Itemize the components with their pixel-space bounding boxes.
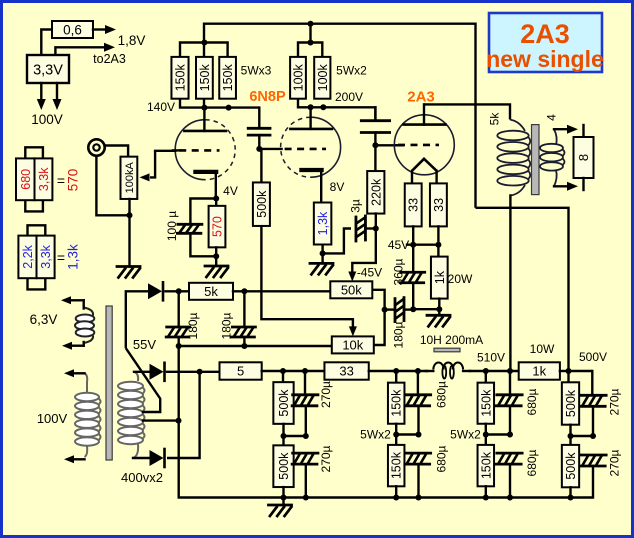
- svg-text:1k: 1k: [433, 270, 447, 284]
- resistor 150k bleeder 2a: [478, 371, 495, 435]
- transformer PT core: [106, 306, 112, 460]
- arrow 6,3V bottom: [62, 342, 84, 350]
- capacitor 270u 3b: [580, 455, 606, 498]
- svg-text:-45V: -45V: [357, 266, 382, 280]
- resistor 1k 20W cathode: [431, 245, 448, 310]
- svg-text:570: 570: [65, 169, 80, 192]
- wire 500V to 270u col: [569, 370, 593, 372]
- wire bias node down to 10k: [374, 310, 385, 345]
- svg-text:1,3k: 1,3k: [65, 244, 80, 270]
- node 500k mid 3: [568, 433, 574, 439]
- svg-text:500k: 500k: [277, 389, 291, 417]
- svg-text:500k: 500k: [564, 389, 578, 417]
- wire volume bottom lead: [128, 199, 130, 215]
- wire to ground stage2: [321, 253, 323, 263]
- node 150k col2 top: [483, 368, 489, 374]
- ground input circuit: [117, 267, 140, 278]
- resistor 5k bias filter: [189, 283, 233, 300]
- svg-text:2,2k: 2,2k: [21, 244, 35, 268]
- node grid 2A3: [372, 142, 378, 148]
- resistor 150k bleeder 2b: [478, 435, 495, 498]
- node cathode stage2 ground junction: [320, 250, 326, 256]
- wire bias ground rail: [179, 345, 332, 347]
- node 680u mid 2: [507, 432, 513, 438]
- capacitor 3u bias feed: [323, 216, 376, 253]
- svg-text:8V: 8V: [330, 180, 345, 194]
- svg-text:100V: 100V: [31, 112, 63, 127]
- wire 55V tap to D1: [126, 348, 160, 412]
- svg-text:4V: 4V: [223, 184, 238, 198]
- node 100k b bottom: [320, 104, 326, 110]
- wire 100k pair top lead: [309, 24, 311, 43]
- svg-text:1k: 1k: [532, 364, 546, 379]
- svg-text:360µ: 360µ: [391, 258, 405, 285]
- node center tap: [176, 418, 182, 424]
- svg-text:150k: 150k: [479, 451, 493, 479]
- node rail 500k 3: [568, 495, 574, 501]
- node 100k pair tie: [308, 40, 314, 46]
- svg-text:6N8P: 6N8P: [249, 89, 286, 105]
- capacitor 180u bias b: [232, 291, 256, 346]
- svg-text:55V: 55V: [133, 337, 156, 352]
- resistor 1,3k cathode stage2: [314, 203, 332, 254]
- diode D3 main rectifier lower: [133, 372, 200, 467]
- node 100k a bottom: [308, 104, 314, 110]
- ground main rail: [269, 505, 292, 516]
- svg-text:680µ: 680µ: [525, 449, 539, 476]
- potentiometer 100kA: [121, 157, 138, 199]
- svg-text:33: 33: [432, 198, 446, 212]
- resistor 150k bleeder 1b: [388, 435, 405, 498]
- svg-text:270µ: 270µ: [607, 388, 621, 415]
- resistor 0,6 (filament dropper): [52, 21, 93, 38]
- node 500V: [566, 368, 572, 374]
- resistor 33 filament b: [430, 183, 447, 244]
- svg-text:180µ: 180µ: [219, 312, 233, 339]
- node 150k c bottom: [226, 105, 232, 111]
- node 150k col top: [393, 368, 399, 374]
- node 5k row right: [241, 288, 247, 294]
- node 360u bottom: [410, 306, 416, 312]
- winding HV secondary 400vx2: [118, 372, 145, 458]
- svg-text:680: 680: [19, 169, 33, 190]
- arrow 100V feed right: [53, 83, 62, 110]
- wire 50k right to 10k right: [372, 290, 384, 310]
- wire row 5 to 33: [262, 370, 325, 372]
- svg-text:50k: 50k: [341, 282, 362, 297]
- svg-text:500V: 500V: [579, 350, 607, 364]
- wire rail ground stub: [282, 498, 284, 506]
- svg-text:=: =: [57, 173, 65, 189]
- wire jack to volume top: [105, 146, 128, 157]
- capacitor 270u upper: [292, 371, 318, 436]
- diode D1 bias rectifier: [126, 282, 189, 348]
- node 680u col top: [415, 368, 421, 374]
- wire 100k pair bottom tie: [298, 99, 375, 121]
- svg-text:270µ: 270µ: [319, 445, 333, 472]
- wire to2A3 arrow: [55, 43, 115, 55]
- node 270u mid 3: [590, 433, 596, 439]
- node bias rail a: [176, 343, 182, 349]
- resistor 100k a: [290, 57, 306, 99]
- svg-text:5k: 5k: [204, 284, 218, 299]
- legend resistors 2,2k parallel 3,3k = 1,3k: [18, 225, 80, 289]
- svg-text:new single: new single: [486, 46, 604, 72]
- svg-text:6,3V: 6,3V: [30, 312, 58, 327]
- svg-text:150k: 150k: [198, 63, 212, 91]
- wire 500k mid tie: [284, 435, 306, 437]
- capacitor coupling C2 stage2-2A3: [361, 107, 389, 145]
- svg-text:200V: 200V: [335, 90, 363, 104]
- resistor 33 filament a: [405, 182, 422, 245]
- resistor 500k bleeder upper: [273, 371, 293, 436]
- capacitor 680u 2b: [496, 453, 522, 497]
- svg-text:180µ: 180µ: [391, 321, 405, 348]
- svg-text:5Wx2: 5Wx2: [360, 428, 391, 442]
- svg-text:33: 33: [407, 198, 421, 212]
- transformer OPT primary 5k: [497, 120, 530, 196]
- wire 5k to 50k: [233, 290, 330, 292]
- arrow 6,3V top: [61, 296, 84, 304]
- node 150k mid 2: [483, 432, 489, 438]
- resistor 500k bleeder lower: [273, 436, 293, 498]
- node 1k bottom: [436, 306, 442, 312]
- winding 6,3V heater: [75, 300, 94, 345]
- node 680u mid 1: [416, 432, 422, 438]
- resistor 150k a: [171, 57, 188, 99]
- svg-text:510V: 510V: [477, 351, 505, 365]
- node 5k row left: [176, 288, 182, 294]
- potentiometer 50k bias adjust: [330, 281, 372, 298]
- wire 220k bottom to -45V: [348, 229, 376, 282]
- wire cathode ground row: [413, 308, 439, 310]
- node rail 680u 1: [416, 495, 422, 501]
- svg-text:100k: 100k: [316, 63, 330, 91]
- node rail 270u: [303, 495, 309, 501]
- resistor 220k grid leak 2A3: [367, 145, 384, 228]
- wire 150k trio bottom tie: [180, 99, 259, 108]
- wire 0,6 box left lead: [41, 30, 52, 56]
- capacitor 680u 2a: [496, 371, 522, 435]
- wire 45V row: [407, 243, 440, 245]
- capacitor 180u bias c (to ground row): [385, 298, 414, 322]
- capacitor 680u 1a: [405, 371, 431, 435]
- svg-text:3µ: 3µ: [348, 199, 362, 213]
- wire HV center tap: [143, 419, 179, 421]
- svg-text:1,8V: 1,8V: [118, 33, 146, 48]
- wire 500k mid tie 3: [571, 435, 594, 437]
- legend resistors 680 parallel 3,3k = 570: [16, 147, 80, 211]
- resistor 33 (filter): [324, 362, 368, 379]
- arrow 100V top: [64, 369, 85, 377]
- svg-text:680µ: 680µ: [525, 388, 539, 415]
- node 220k bottom: [373, 226, 379, 232]
- wire 500k stage2 return to 10k wiper: [261, 226, 357, 336]
- svg-text:5Wx2: 5Wx2: [336, 64, 367, 78]
- svg-text:5: 5: [237, 364, 244, 379]
- node rectifier output: [197, 369, 203, 375]
- wire volume wiper to grid V1: [140, 151, 156, 182]
- transformer 3,3V box: [27, 55, 69, 83]
- svg-text:10H 200mA: 10H 200mA: [420, 333, 483, 347]
- resistor 100k b: [314, 57, 330, 99]
- resistor 500k grid leak stage2: [253, 149, 270, 226]
- svg-text:4: 4: [544, 114, 558, 121]
- resistor 150k c: [219, 57, 236, 99]
- choke 10H 200mA: [426, 348, 470, 378]
- transformer OPT core: [532, 125, 540, 195]
- svg-text:500k: 500k: [564, 452, 578, 480]
- arrow 100V bottom: [64, 455, 85, 463]
- wire grid stage 2: [259, 148, 281, 150]
- node 500k mid: [281, 433, 287, 439]
- capacitor 100u cathode bypass: [177, 199, 216, 257]
- node 270u col top: [302, 368, 308, 374]
- wire grid 2A3: [375, 144, 396, 146]
- wire 150k mid tie 2: [486, 433, 510, 435]
- svg-text:140V: 140V: [147, 100, 175, 114]
- transformer OPT secondary: [540, 129, 565, 186]
- wire 150k mid tie 1: [396, 433, 418, 435]
- svg-text:8: 8: [576, 154, 591, 161]
- potentiometer 10k bias adjust: [332, 336, 374, 353]
- tube V3 2A3: [394, 104, 454, 181]
- svg-text:680µ: 680µ: [434, 381, 448, 408]
- resistor 5 (filter): [220, 362, 262, 379]
- node rail 150k 2: [483, 495, 489, 501]
- node 45V a: [410, 242, 416, 248]
- wire 500V riser to plate rail: [476, 208, 569, 371]
- svg-text:100 µ: 100 µ: [165, 211, 179, 241]
- node bias rail b: [241, 343, 247, 349]
- node 270u mid: [303, 433, 309, 439]
- svg-text:45V: 45V: [388, 238, 409, 252]
- svg-text:to2A3: to2A3: [93, 52, 126, 66]
- svg-text:=: =: [57, 250, 65, 266]
- node grid stage 2: [256, 146, 262, 152]
- svg-text:1,3k: 1,3k: [316, 211, 330, 235]
- wire choke to 1k: [470, 370, 519, 372]
- resistor 570 cathode: [209, 199, 226, 257]
- wire bias return / center tap to ground rail: [179, 346, 593, 498]
- resistor 150k b: [196, 57, 213, 99]
- svg-text:150k: 150k: [174, 63, 188, 91]
- wire B+ top rail: [204, 24, 476, 208]
- capacitor 270u lower: [292, 453, 318, 497]
- svg-text:5k: 5k: [487, 112, 501, 126]
- wire jack ground to volume bottom: [96, 156, 129, 216]
- svg-text:100k: 100k: [292, 63, 306, 91]
- svg-text:3,3k: 3,3k: [39, 244, 53, 268]
- arrow 100V feed left: [37, 83, 46, 110]
- svg-text:180µ: 180µ: [186, 312, 200, 339]
- ground V1 cathode: [205, 266, 228, 277]
- node cathode ground junction V1: [213, 253, 219, 259]
- svg-text:100kA: 100kA: [124, 162, 136, 194]
- input jack J1: [88, 139, 104, 155]
- svg-text:5Wx3: 5Wx3: [241, 64, 272, 78]
- arrow secondary top to speaker: [554, 125, 578, 134]
- svg-text:3,3V: 3,3V: [33, 63, 63, 79]
- svg-text:150k: 150k: [390, 389, 404, 417]
- svg-text:10W: 10W: [530, 342, 555, 356]
- node rail 500k: [281, 495, 287, 501]
- wire 150k trio top tie: [180, 43, 228, 58]
- node volume ground junction: [127, 212, 133, 218]
- resistor 1k (filter 10W): [519, 362, 560, 379]
- wire 1k to 500V node: [560, 370, 569, 372]
- node rail 150k 1: [393, 495, 399, 501]
- diode D2 main rectifier upper: [134, 363, 220, 381]
- wire OPT primary bottom lead: [509, 196, 511, 372]
- svg-text:10k: 10k: [342, 338, 363, 353]
- node rail 680u 2: [507, 495, 513, 501]
- svg-text:680µ: 680µ: [434, 445, 448, 472]
- node rail to 100k pair: [308, 21, 314, 27]
- resistor 500k bleeder 3a: [562, 371, 579, 436]
- svg-text:400vx2: 400vx2: [121, 470, 163, 485]
- svg-text:150k: 150k: [479, 389, 493, 417]
- wire row 33 to choke: [369, 370, 427, 372]
- wire grid V1 from volume: [155, 150, 175, 152]
- arrow 1,8V output: [93, 25, 116, 34]
- ground stage2 cathode: [310, 263, 333, 274]
- resistor 500k bleeder 3b: [562, 436, 579, 498]
- svg-text:0,6: 0,6: [63, 22, 82, 37]
- title box 2A3 new single: [486, 13, 604, 72]
- svg-text:3,3k: 3,3k: [37, 167, 51, 191]
- svg-text:500k: 500k: [277, 452, 291, 480]
- tube V1 6N8P first half: [173, 108, 235, 199]
- svg-text:2A3: 2A3: [520, 19, 570, 49]
- tube V2 6N8P second half: [281, 107, 341, 202]
- resistor 150k bleeder 1a: [388, 371, 405, 435]
- svg-text:270µ: 270µ: [319, 381, 333, 408]
- node 150k b bottom: [201, 105, 207, 111]
- node 150k mid 1: [393, 432, 399, 438]
- node 500k col top: [280, 368, 286, 374]
- svg-text:20W: 20W: [448, 272, 473, 286]
- node 510V / OPT feed: [507, 368, 513, 374]
- arrow secondary bottom to speaker: [554, 182, 578, 191]
- svg-text:33: 33: [339, 364, 353, 379]
- wire plate 2A3 to OPT: [424, 104, 510, 119]
- svg-text:2A3: 2A3: [407, 89, 435, 106]
- svg-text:500k: 500k: [255, 190, 269, 218]
- capacitor 360u cathode bypass: [400, 245, 425, 310]
- capacitor coupling C1 stage1-stage2: [248, 108, 270, 149]
- capacitor 180u bias a: [166, 291, 190, 346]
- winding 100V primary: [75, 373, 101, 457]
- node 45V b: [435, 242, 441, 248]
- svg-text:220k: 220k: [369, 178, 383, 206]
- node 150k trio top tie: [201, 40, 207, 46]
- svg-text:150k: 150k: [221, 63, 235, 91]
- wire 100k pair top tie: [298, 43, 322, 58]
- svg-text:570: 570: [211, 216, 225, 237]
- svg-text:100V: 100V: [37, 411, 68, 426]
- capacitor 270u 3a: [580, 371, 606, 436]
- ground 2A3 cathode: [427, 315, 450, 326]
- node cathode V1: [213, 196, 219, 202]
- wire 1k to ground: [438, 309, 440, 315]
- capacitor 680u 1b: [405, 453, 431, 497]
- speaker 8 ohm: [574, 125, 594, 190]
- wire volume junction down to ground: [128, 215, 130, 266]
- svg-text:150k: 150k: [390, 451, 404, 479]
- svg-text:270µ: 270µ: [607, 449, 621, 476]
- svg-text:5Wx2: 5Wx2: [450, 428, 481, 442]
- wire to ground V1: [215, 256, 217, 266]
- node bias node: [382, 307, 388, 313]
